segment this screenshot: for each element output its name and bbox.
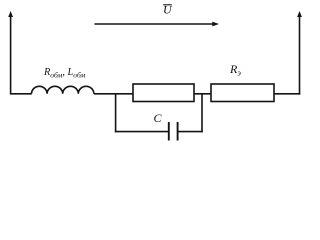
wire: left branch drop (115, 93, 117, 132)
voltage arrowhead (212, 22, 219, 27)
wire: right branch riser (201, 93, 203, 132)
left terminal wire (10, 15, 12, 94)
voltage arrow line (95, 23, 214, 25)
right terminal wire (299, 15, 301, 95)
wire: bottom left (115, 131, 168, 133)
label U overline (163, 4, 172, 6)
svg-text:C: C (154, 111, 163, 125)
wire: box to Re box (194, 93, 211, 95)
wire: bottom right (178, 131, 202, 133)
left terminal arrowhead (8, 11, 13, 17)
wire: left corner to coil (10, 93, 32, 95)
resistor Re (211, 84, 274, 102)
wire: Re to right corner (274, 93, 300, 95)
capacitor C left plate (168, 122, 170, 141)
capacitor C right plate (177, 122, 179, 141)
right terminal arrowhead (297, 11, 302, 17)
wire: coil to resistor box (94, 93, 133, 95)
resistor box (shunt branch) (133, 84, 194, 102)
inductor Robm Lobm coil (32, 86, 94, 93)
